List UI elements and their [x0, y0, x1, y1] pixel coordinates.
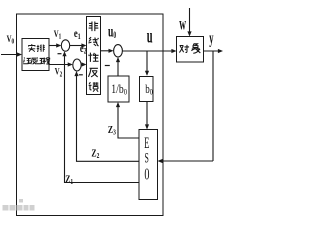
- label u: [147, 24, 153, 48]
- summing junction 3: [114, 45, 123, 57]
- wire z2 from ESO to junction 2: [77, 73, 140, 162]
- label v2: [55, 67, 62, 79]
- minus sign at junction 2: [79, 74, 83, 76]
- wire v1: [49, 45, 60, 47]
- outer ADRC controller box: [17, 14, 164, 216]
- wire v0: [1, 54, 20, 56]
- label e2: [80, 43, 87, 56]
- wire b0 to ESO: [146, 102, 148, 128]
- wire w (disturbance): [189, 8, 191, 35]
- wire v2: [49, 64, 71, 66]
- label z2: [91, 147, 99, 160]
- block: ESO: [139, 130, 158, 200]
- svg-text:0: 0: [144, 166, 149, 184]
- block: nonlinear feedback 非线性反馈 (vertical): [87, 17, 101, 95]
- svg-text:y: y: [209, 28, 213, 47]
- watermark: [3, 199, 35, 211]
- minus sign at junction 1: [58, 53, 62, 55]
- label e1: [74, 28, 81, 41]
- label z1: [65, 174, 73, 187]
- block: plant 对象: [177, 37, 204, 63]
- label y: [209, 28, 213, 47]
- summing junction 1: [61, 40, 69, 51]
- label w: [179, 14, 186, 34]
- summing junction 2: [73, 59, 81, 71]
- wire y output: [204, 50, 222, 52]
- wire y feedback into ESO: [159, 160, 213, 162]
- wire e1: [70, 45, 85, 47]
- label u0: [108, 22, 116, 41]
- wire u: [122, 50, 174, 52]
- wire 1/b0 up to junction 3: [117, 59, 119, 76]
- block: 1/b0: [108, 76, 129, 102]
- wire e2: [81, 64, 85, 66]
- wire z3 from ESO to 1/b0: [118, 104, 139, 138]
- wire y feedback down: [212, 51, 214, 161]
- svg-text:u: u: [147, 24, 153, 48]
- wire z1 from ESO to junction 1: [65, 53, 140, 183]
- wire u0: [101, 50, 112, 52]
- minus sign at junction 3: [105, 65, 110, 67]
- label z3: [108, 124, 117, 137]
- label v1: [54, 29, 61, 41]
- wire u branch into b0: [146, 51, 148, 75]
- block: transition process 安排过渡过程: [22, 39, 49, 71]
- block: b0: [140, 77, 154, 102]
- svg-text:w: w: [179, 14, 186, 34]
- svg-text:S: S: [145, 149, 149, 167]
- label v0: [7, 34, 14, 46]
